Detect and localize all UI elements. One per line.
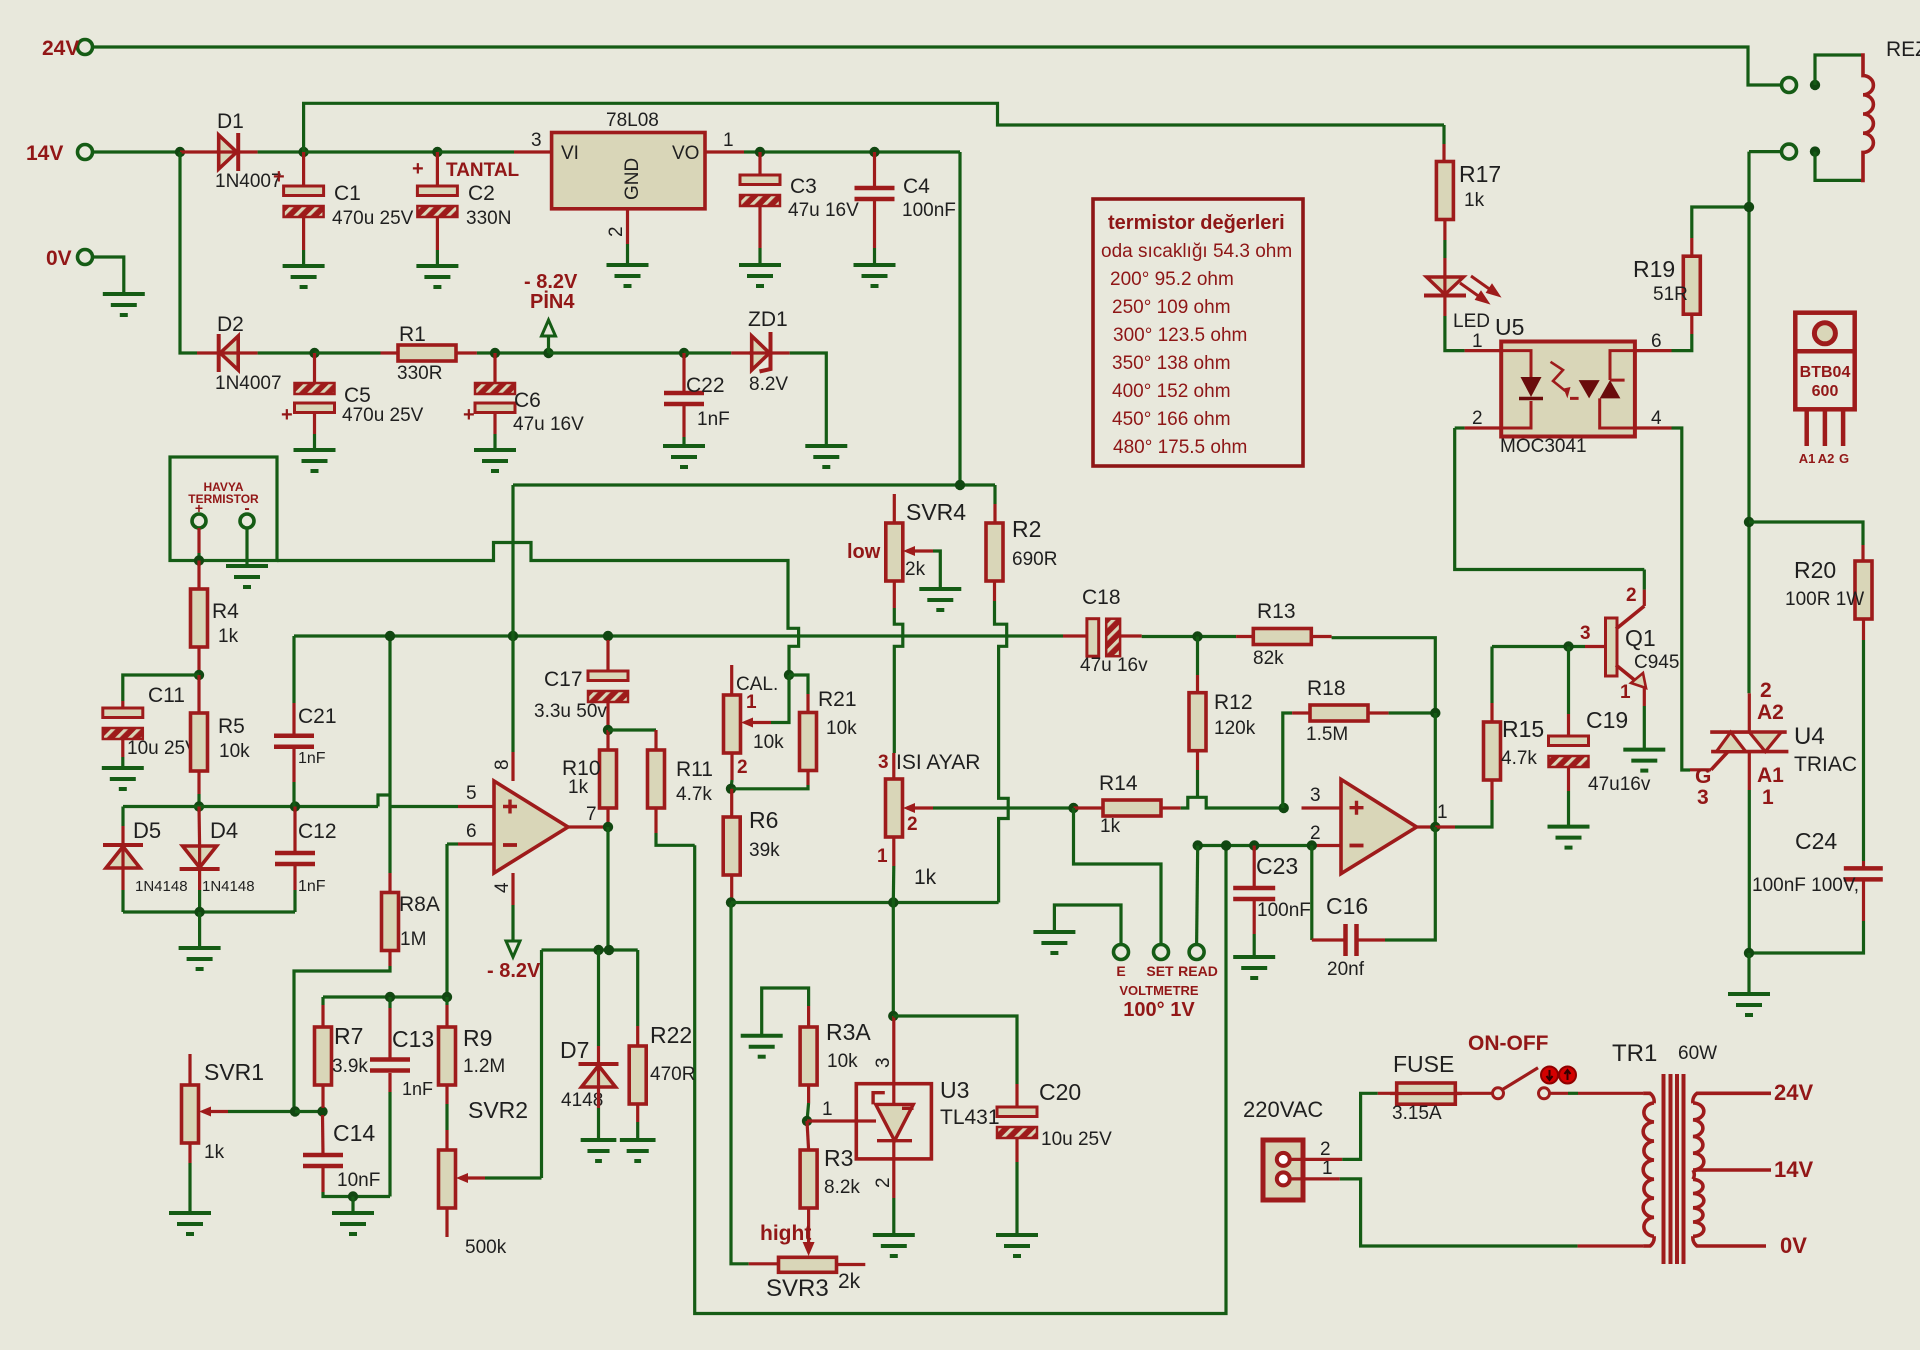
svg-text:- 8.2V: - 8.2V [524,271,578,293]
wire C21 bottom lead [292,749,295,782]
svg-text:R5: R5 [218,715,245,738]
wire CAL to node [731,780,732,789]
svg-text:FUSE: FUSE [1393,1051,1454,1077]
ground C5 [294,450,336,471]
wire bus636 left end to C21 [292,636,295,703]
wire D1 to C1 node [258,150,304,153]
svg-text:ON-OFF: ON-OFF [1468,1032,1549,1055]
svg-text:3.3u 50v: 3.3u 50v [534,701,607,722]
svg-text:47u 16V: 47u 16V [788,200,859,221]
svg-text:SVR1: SVR1 [204,1059,264,1085]
svg-text:47u 16v: 47u 16v [1080,655,1148,676]
wire node to R21 [789,675,808,694]
terminal thermistor - [240,514,254,528]
wire U3 to ground [892,1198,895,1235]
wire base rail to R15 [1490,647,1493,704]
wire to node [197,553,200,561]
svg-text:A1: A1 [1799,451,1816,466]
svg-text:450° 166 ohm: 450° 166 ohm [1112,409,1231,430]
svg-text:C20: C20 [1039,1079,1081,1105]
wire R14 node to SET terminal [1074,808,1162,945]
pot SVR1 [182,1085,199,1143]
svg-text:10u 25V: 10u 25V [1041,1129,1112,1150]
svg-text:C3: C3 [790,175,817,198]
wire U5 pin4 lead [1635,426,1672,429]
svg-text:D7: D7 [560,1037,589,1063]
wire SVR1 to ground [188,1163,191,1213]
wire triac rail upper [1747,152,1750,694]
wire C24 top lead [1862,861,1865,868]
wire R5 to +input bus [197,794,200,807]
wire C6 bottom lead [493,414,496,434]
node SVR1 R8A [290,1106,300,1116]
wire D2 cathode lead [197,351,219,354]
svg-text:C13: C13 [392,1026,434,1052]
resistor R20 [1855,561,1872,619]
svg-text:C24: C24 [1795,828,1837,854]
node VO rail [955,480,965,490]
svg-text:250° 109 ohm: 250° 109 ohm [1112,297,1231,318]
svg-text:7: 7 [586,804,597,825]
wire R17 to LED [1443,240,1446,258]
svg-text:350° 138 ohm: 350° 138 ohm [1112,353,1231,374]
pot SVR3 [779,1257,837,1272]
svg-text:4: 4 [492,882,513,893]
ground C3 [739,265,781,286]
svg-text:C2: C2 [468,182,495,205]
wire R1 left lead [381,351,399,354]
svg-text:14V: 14V [26,142,63,165]
wire R7 top lead [321,1005,324,1027]
wire 24V rail [92,47,1781,85]
svg-text:1: 1 [1322,1158,1333,1179]
svg-text:REZİ: REZİ [1886,38,1920,61]
svg-text:R11: R11 [676,758,713,781]
wire C13 to ground rail [388,1092,391,1197]
wire R19 to relay rail [1692,207,1748,238]
wire C16 to output node [1385,827,1435,940]
node C13 [385,992,395,1002]
wire D5 to bottom rail [121,890,124,912]
wire opamp1 output lead [568,825,608,828]
pot SVR2 [439,1150,456,1208]
svg-text:1nF: 1nF [697,409,730,430]
wire switch out green [1568,1092,1578,1095]
wire LED cathode lead [1443,296,1446,316]
node U3 C20 [888,1011,898,1021]
svg-text:600: 600 [1812,383,1839,400]
svg-text:500k: 500k [465,1237,507,1258]
terminal SET [1154,945,1169,960]
capacitor C24 [1844,868,1883,879]
wire C1 to ground [302,250,305,266]
wire R20 top lead [1861,545,1864,561]
node C3 [755,147,765,157]
svg-text:C19: C19 [1586,707,1628,733]
wire C3 bottom lead [758,206,761,248]
wire to coil top [1815,55,1861,85]
svg-text:1N4148: 1N4148 [135,878,188,895]
wire C17 top lead [606,640,609,671]
node R21 R6 [726,784,736,794]
svg-text:R15: R15 [1502,716,1544,742]
transformer core [1664,1074,1684,1264]
wire CAL wiper to node [771,675,789,723]
svg-text:470u 25V: 470u 25V [332,208,414,229]
op-amp U1 [494,781,568,873]
wire FUSE right lead [1455,1092,1492,1095]
wire thermistor + lead [197,528,200,553]
svg-text:+: + [273,166,285,188]
ground triac [1728,994,1770,1015]
wire C18 to R13 [1142,635,1236,638]
resistor R4 [191,589,208,647]
wire C18 left lead [1063,634,1087,637]
zener ZD1 [752,336,770,370]
svg-text:14V: 14V [1774,1157,1813,1182]
wire VO rail down to low bus [958,152,961,485]
wire transformer bottom lead [1578,1244,1644,1247]
svg-text:78L08: 78L08 [606,110,659,131]
resistor R13 [1253,629,1311,645]
wire opamp2 pin3 lead [1302,806,1342,809]
wire R1 right lead [456,351,477,354]
svg-text:51R: 51R [1653,284,1688,305]
svg-text:VO: VO [672,143,699,164]
capacitor C6 [475,383,515,394]
wire C5 to ground [313,434,316,450]
svg-text:R1: R1 [399,323,426,346]
wire LED anode lead [1443,258,1446,277]
svg-text:C11: C11 [148,684,185,707]
wire Q1 base rail [1492,645,1585,648]
wire VO pin lead [705,150,744,153]
wire opamp2 pin2 lead [1312,844,1341,847]
wire pin6 down to R9 bus [445,844,448,997]
wire R22 bottom lead [636,1104,639,1122]
capacitor C19 [1549,736,1589,746]
svg-text:1nF: 1nF [298,750,326,767]
resistor R7 [315,1027,332,1085]
wire R11 bottom lead [654,808,657,833]
svg-text:+: + [412,158,424,180]
wire C12 bottom lead [293,866,296,890]
svg-text:8.2V: 8.2V [749,374,788,395]
terminal relay contact A [1782,78,1797,93]
wire base node down to C19 [1567,647,1570,715]
svg-text:1: 1 [746,692,757,713]
wiper SVR2 [460,1176,485,1179]
capacitor C4 [855,188,895,199]
resistor R21 [800,713,817,771]
wire 78L08 VI pin lead [514,150,552,153]
wire power flag stem [547,336,550,353]
wire C11 top lead [121,701,124,708]
wire R3A top lead [807,1006,810,1027]
wire R13 to feedback node [1332,638,1436,713]
wire C11 bottom lead [121,739,124,757]
wire R3A top to ground [762,988,809,1036]
wire C22 to ZD1 [684,351,731,354]
node R20 tap [1744,517,1754,527]
wire R21 bottom lead [806,771,809,786]
wire D1 cathode lead [239,150,258,153]
svg-text:+: + [281,404,293,426]
wire R11 top lead [654,730,657,750]
wire R9 to SVR2 [445,1104,448,1130]
wire C1 node to R17 top rail [304,103,1444,152]
wire D5 top [121,807,124,827]
wire C16 left lead [1312,938,1344,941]
svg-text:1: 1 [1762,786,1774,809]
inductor REZ coil [1861,55,1873,180]
wire R9 bottom lead [445,1085,448,1104]
terminal E [1114,945,1129,960]
svg-text:R12: R12 [1214,691,1253,714]
wire node to R11 [608,728,656,731]
wire C23 bottom lead [1253,901,1256,934]
wiper ISI AYAR [907,806,933,809]
wire C16 right lead [1359,938,1386,941]
wire opamp1 pin8 column [511,485,514,752]
capacitor C20 [997,1107,1037,1117]
wire C1 bottom lead [302,217,305,250]
wire rail to SVR2 wiper [540,950,543,1178]
wiper SVR1 [203,1110,228,1113]
svg-text:R19: R19 [1633,256,1675,282]
diode D5 [103,843,143,847]
svg-text:1: 1 [1620,682,1631,703]
wire ISI pin3 lead [892,753,895,779]
svg-text:R22: R22 [650,1022,692,1048]
wire 0V to ground [92,257,124,294]
wire SVR4 bottom lead [893,581,896,608]
svg-text:1k: 1k [204,1142,225,1163]
wire C6 to ground [493,434,496,450]
resistor R5 [191,713,208,771]
wire R8A top lead [388,873,391,893]
svg-text:+: + [463,404,475,426]
svg-text:R8A: R8A [399,893,440,916]
wire pin1 to transformer bottom [1340,1179,1578,1246]
power flag -8.2V PIN4 [542,320,556,336]
wire D7 anode lead [597,1087,600,1108]
wire C4 to ground [873,248,876,265]
svg-text:100nF 100V,: 100nF 100V, [1752,875,1859,896]
wire output down to D7 rail [606,827,609,950]
svg-text:220VAC: 220VAC [1243,1097,1323,1122]
wire VO to C3 C4 [744,150,960,153]
svg-text:3.9k: 3.9k [332,1056,368,1077]
svg-text:60W: 60W [1678,1043,1717,1064]
svg-text:low: low [847,541,881,563]
wire opamp2 output lead [1417,825,1436,828]
ground E [1033,932,1075,953]
wire ISI wiper to R14 [933,806,1074,809]
wire D5 anode lead [121,868,124,890]
diode D2 [217,334,221,372]
wire ISI pin1 to bus2 [892,866,896,903]
wire R17 top lead [1442,144,1445,162]
ground SVR1 [169,1213,211,1234]
wire U5 pin4 down to triac gate [1672,428,1691,770]
wire +input bus left [123,805,378,808]
node C4 [869,147,879,157]
transformer secondary [1693,1103,1704,1236]
wire C20 top lead [1015,1084,1018,1107]
svg-text:3: 3 [878,752,889,773]
wire to transformer top [1578,1092,1643,1095]
svg-text:1N4148: 1N4148 [202,878,255,895]
node C22 [679,348,689,358]
capacitor C22 [664,393,704,404]
wire R12 top lead [1196,675,1199,693]
wire LED to U5 pin1 [1445,316,1465,351]
wire +input bus right [390,805,458,808]
wire R3 bottom arrow to SVR3 [807,1208,810,1243]
svg-text:C12: C12 [298,820,337,843]
wire C11 to ground [121,757,124,768]
wire C21 to node [292,782,295,807]
resistor R1 [398,345,456,361]
wire R21 to node [731,785,808,789]
wire feedback down to output [1434,713,1437,827]
node D4 R5 [194,801,204,811]
wire opamp1 pin5 lead [458,805,494,808]
optocoupler U5 MOC3041 [1501,342,1635,437]
svg-text:4: 4 [1651,408,1662,429]
ground U3 [873,1235,915,1256]
resistor R15 [1484,722,1501,780]
wire R1 to C6 node [477,351,549,354]
svg-text:10k: 10k [826,718,857,739]
wire C4 bottom lead [873,200,876,248]
ground C19 [1548,827,1590,848]
svg-text:C23: C23 [1256,853,1298,879]
capacitor C14 [303,1155,343,1166]
wire C14 top lead [321,1115,325,1155]
wire R3A bottom lead [807,1085,810,1103]
wire R8A bottom lead [388,951,391,967]
wire C23 to ground [1253,934,1256,957]
wire SVR2 top lead [445,1130,448,1150]
wire R22 to ground [636,1122,639,1140]
fuse FUSE [1397,1083,1456,1104]
svg-text:R7: R7 [334,1023,363,1049]
svg-text:1.2M: 1.2M [463,1056,505,1077]
svg-text:330R: 330R [397,363,442,384]
svg-text:100nF: 100nF [902,200,956,221]
wire R11 to long loop [656,833,695,845]
node R14 ISI [1068,803,1078,813]
svg-text:2k: 2k [905,559,926,580]
svg-text:MOC3041: MOC3041 [1500,436,1587,457]
node opamp1 output [603,822,613,832]
wire to C22 node [549,351,685,354]
capacitor C11 [103,708,143,718]
wire R15 top lead [1490,703,1493,722]
node coil top [1810,80,1820,90]
svg-text:6: 6 [1651,331,1662,352]
wire SVR2 bottom stub [445,1208,448,1237]
wire ISI pin1 lead [892,837,895,866]
wire ZD1 cathode lead [771,351,790,354]
svg-text:6: 6 [466,821,477,842]
wire C24 bottom lead [1862,881,1865,921]
node C17 [603,631,613,641]
svg-text:4.7k: 4.7k [676,784,712,805]
svg-text:C18: C18 [1082,586,1121,609]
capacitor C12 [275,853,315,864]
wire diode bottom rail [123,910,295,913]
ground diodes [179,948,221,969]
ground SVR4 [919,589,961,610]
wire node to R12 [1196,637,1199,676]
wire U3 pin2 lead [892,1141,895,1198]
svg-text:100° 1V: 100° 1V [1123,999,1195,1021]
svg-text:10k: 10k [219,741,250,762]
svg-text:8.2k: 8.2k [824,1177,860,1198]
svg-text:39k: 39k [749,840,780,861]
wire E to ground [1054,905,1121,945]
capacitor C1 [284,186,324,196]
wire bus2 down to U3 [892,903,895,1017]
svg-text:A1: A1 [1757,764,1784,787]
wire C20 to ground [1015,1162,1018,1235]
svg-text:VI: VI [561,143,579,164]
wire C13 bottom lead [388,1073,391,1092]
wire rail to R22 [636,950,639,1026]
wire CAL bottom lead [730,753,733,780]
svg-text:24V: 24V [1774,1080,1813,1105]
wire R15 to output node [1455,800,1492,827]
wire C14 bottom lead [321,1168,324,1192]
wire U5 pin2 lead [1465,426,1502,429]
ground C22 [663,446,705,467]
wire R6 bottom lead [730,875,733,903]
node ISI pin1 [888,897,898,907]
node bus2 left [726,897,736,907]
capacitor C5 [295,383,335,394]
svg-text:U5: U5 [1495,314,1524,340]
wire C19 top lead [1567,714,1570,736]
wire C2 to 78L08 [437,150,514,153]
svg-text:C6: C6 [514,389,541,412]
svg-text:C22: C22 [686,374,725,397]
wire upper bus 485 [513,483,995,486]
svg-text:C21: C21 [298,705,337,728]
node R7 C14 [317,1106,327,1116]
wire SVR2 wiper line [485,1176,542,1179]
ground R3A [741,1036,783,1057]
ground 0V [103,294,145,315]
resistor R10 [600,750,617,808]
wire switch out lead [1550,1092,1569,1095]
switch actuator icons [1541,1067,1558,1084]
svg-text:SET: SET [1146,963,1174,979]
wire ref to U3 [807,1119,876,1122]
wire C3 top lead [758,152,761,175]
node C2 [432,147,442,157]
wire opamp2 minus rail [1198,844,1312,847]
resistor R3A [800,1027,817,1085]
wire U5 pin2 to Q1 collector [1455,428,1645,570]
wire D7 cathode lead [597,1046,600,1064]
capacitor C2 [417,186,457,196]
wire opamp1 pin8 lead [511,752,514,781]
wire 14V down to D2 [180,152,197,353]
wire D4 to bottom rail [198,890,201,912]
